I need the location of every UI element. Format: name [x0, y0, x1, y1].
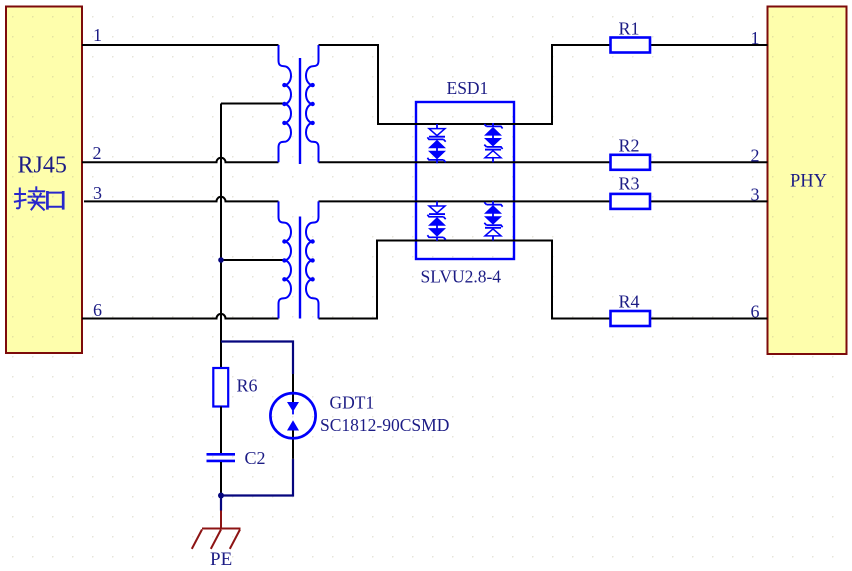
svg-text:1: 1	[93, 25, 102, 45]
wire 3: RJ45 pin3 to T2 primary top (hop)	[84, 197, 279, 202]
svg-text:R2: R2	[619, 136, 640, 156]
svg-text:3: 3	[751, 184, 760, 204]
wire: GDT branch bottom (net)	[221, 459, 293, 496]
ESD1 box outline	[416, 102, 514, 259]
svg-text:ESD1: ESD1	[447, 78, 489, 98]
wire: R3 to PHY pin3	[650, 200, 768, 202]
wire: T2 center tap	[221, 259, 285, 261]
svg-text:R6: R6	[237, 376, 258, 396]
svg-text:R4: R4	[619, 292, 640, 312]
wire: T1 center tap	[221, 103, 285, 105]
svg-text:SC1812-90CSMD: SC1812-90CSMD	[320, 415, 449, 435]
wire 2: RJ45 pin2 to T1 primary bottom (hop over center-tap line)	[82, 158, 279, 163]
RJ45 connector box	[6, 7, 82, 354]
junction T2 center tap	[218, 257, 224, 263]
svg-text:1: 1	[751, 28, 760, 48]
resistor R6	[213, 368, 228, 407]
ESD1 diode stack 4 (row C-D right, rotated)	[484, 201, 502, 240]
wire: GDT branch top (net)	[221, 342, 293, 375]
wire: R1 to PHY pin1	[650, 44, 768, 46]
svg-text:C2: C2	[245, 448, 266, 468]
svg-text:GDT1: GDT1	[330, 393, 375, 413]
resistor R3	[611, 194, 651, 209]
wire: R4 to PHY pin6	[650, 318, 768, 320]
svg-text:2: 2	[751, 145, 760, 165]
svg-text:3: 3	[93, 183, 102, 203]
wire 1: RJ45 pin1 to T1 primary top	[82, 44, 279, 46]
resistor R1	[611, 38, 651, 53]
wire: T1 secondary top to ESD row A	[319, 45, 611, 124]
svg-text:6: 6	[93, 300, 102, 320]
wire: R2 to PHY pin2	[650, 161, 768, 163]
wire: C2 to PE junction	[220, 462, 222, 496]
capacitor C2	[207, 453, 236, 456]
resistor R2	[611, 155, 651, 170]
svg-text:SLVU2.8-4: SLVU2.8-4	[421, 267, 502, 287]
junction PE node	[218, 493, 224, 499]
wire: T2 secondary bottom up through ESD row D	[319, 241, 611, 319]
svg-text:R1: R1	[619, 18, 640, 38]
wire: center-tap vertical line	[220, 104, 222, 342]
resistor R4	[611, 311, 651, 326]
ESD1 diode stack 3 (row C-D left)	[427, 201, 445, 240]
transformer T2	[279, 201, 319, 318]
ground PE symbol	[192, 511, 241, 549]
svg-text:2: 2	[93, 143, 102, 163]
wire 6: RJ45 pin6 to T2 primary bottom (hop)	[82, 314, 279, 319]
wire: R6 to C2	[220, 407, 222, 454]
wire: T2 secondary top through ESD row C to R3	[319, 200, 611, 202]
wire: T1 secondary bottom through ESD row B to R2	[319, 161, 611, 163]
PHY box	[768, 7, 847, 355]
svg-text:PE: PE	[210, 549, 232, 570]
svg-text:6: 6	[751, 302, 760, 322]
transformer T1	[279, 45, 319, 164]
ESD1 diode stack 1 (row A-B left)	[427, 124, 445, 163]
wire: R6 branch vertical	[220, 342, 222, 369]
gas discharge tube GDT1	[270, 374, 315, 459]
ESD1 diode stack 2 (row A-B right, rotated)	[484, 123, 502, 162]
RJ45 label 接口 (drawn glyphs)	[14, 186, 63, 210]
svg-text:R3: R3	[619, 174, 640, 194]
wire: junction to PE symbol	[220, 496, 222, 511]
